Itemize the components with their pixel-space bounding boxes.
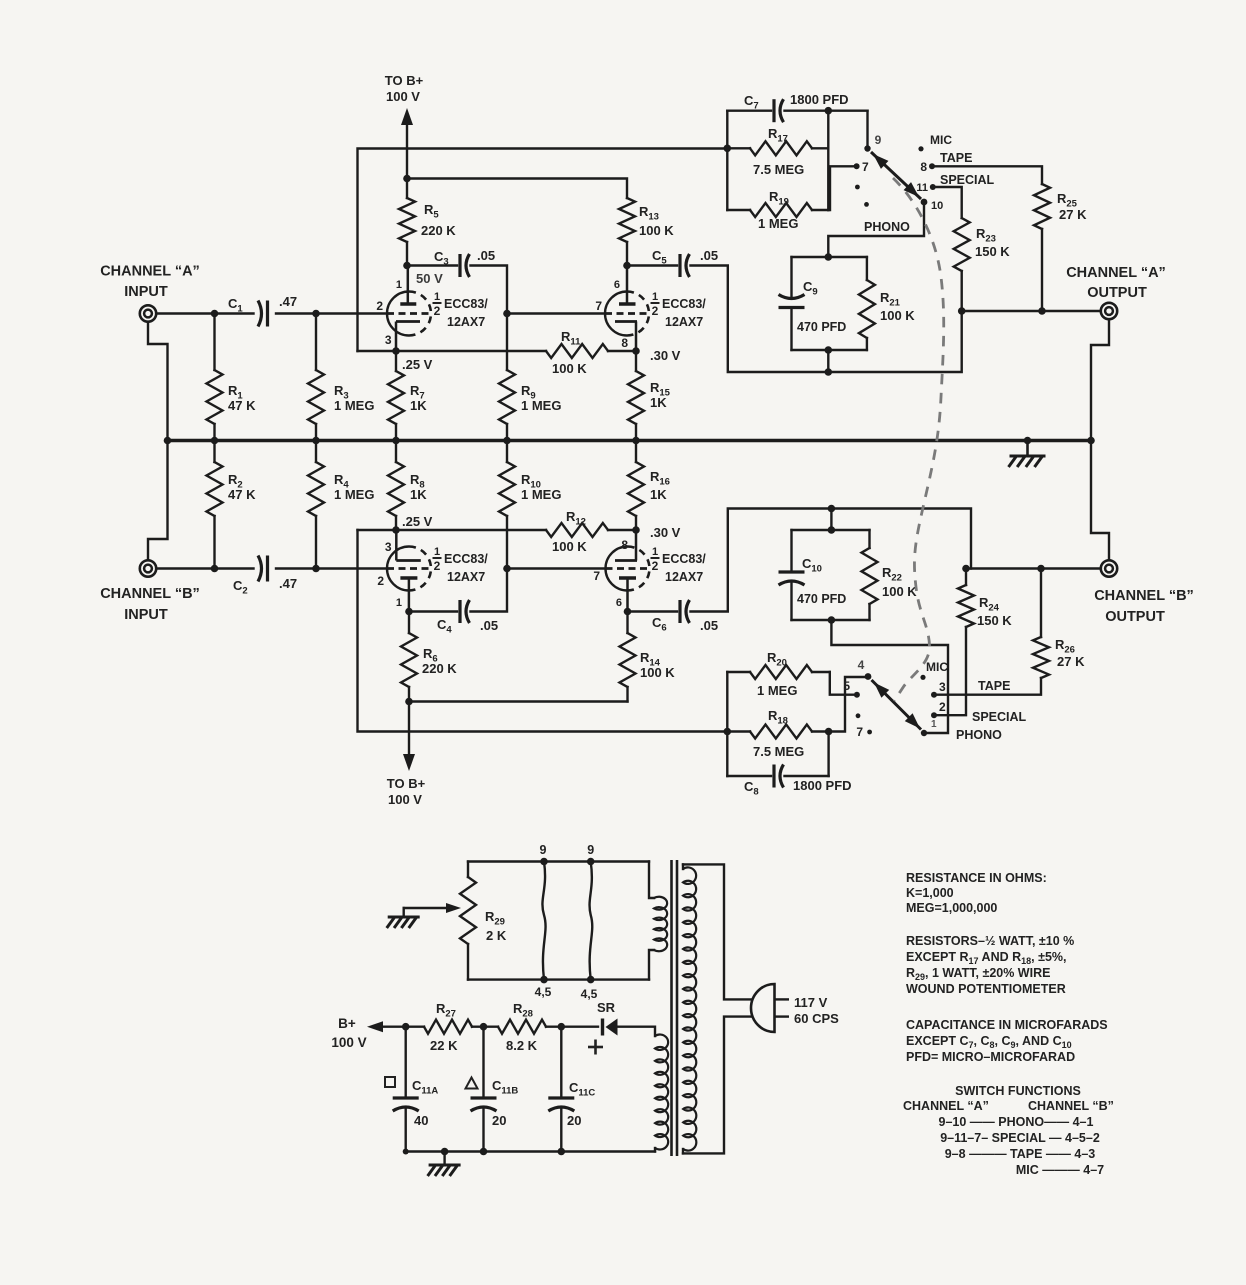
svg-text:9–11–7– SPECIAL — 4–5–2: 9–11–7– SPECIAL — 4–5–2 (940, 1131, 1100, 1145)
svg-text:40: 40 (414, 1113, 428, 1128)
label .05 (C4 value) (480, 618, 498, 633)
svg-text:C7: C7 (744, 93, 759, 112)
wire output line A (962, 310, 1101, 312)
label R19 (769, 189, 789, 208)
label 117V 60CPS (794, 995, 839, 1026)
wire cathode line B (358, 529, 637, 531)
label R22 100K (882, 565, 917, 599)
label SPECIAL (B) (972, 710, 1027, 724)
transformer primary winding (683, 864, 696, 1153)
label R13 100K (639, 204, 674, 238)
label C3 (434, 249, 449, 268)
label .30V (V2A cathode) (650, 348, 681, 363)
svg-text:100 K: 100 K (552, 539, 587, 554)
label TAPE (B) (978, 679, 1010, 693)
label R8 1K (410, 472, 427, 502)
label 40 (C11A) (414, 1113, 428, 1128)
pin 6 label (V2B plate) (616, 597, 622, 609)
svg-text:PHONO: PHONO (956, 728, 1002, 742)
label R20 (767, 650, 787, 669)
switch S1B contact 5 (843, 679, 860, 698)
svg-text:SR: SR (597, 1000, 616, 1015)
node ground stem (441, 1148, 449, 1156)
resistor R21 (859, 257, 875, 350)
svg-text:.05: .05 (700, 248, 718, 263)
svg-text:6: 6 (616, 597, 622, 609)
label CHANNEL A OUTPUT (1066, 265, 1166, 301)
switch S1B unused contact (856, 713, 861, 718)
resistor R27 (424, 1020, 498, 1034)
svg-text:7: 7 (862, 160, 869, 174)
wire input A to grid line (156, 312, 253, 314)
resistor R10 (499, 441, 515, 569)
svg-text:100 K: 100 K (640, 665, 675, 680)
svg-text:1: 1 (434, 291, 440, 303)
svg-text:9: 9 (540, 843, 547, 857)
note: switch functions (903, 1084, 1114, 1177)
wire C8 right to R18 node (827, 732, 829, 777)
wire C6 to output net B (691, 509, 972, 612)
svg-text:CAPACITANCE IN MICROFARADS: CAPACITANCE IN MICROFARADS (906, 1018, 1108, 1032)
label 7.5 MEG (R17) (753, 162, 804, 177)
resistor R8 (388, 441, 404, 531)
label R10 1MEG (521, 472, 561, 502)
node V2B plate / R14 / C6 (624, 608, 632, 616)
svg-text:C9: C9 (803, 279, 818, 298)
wire contact 2 to R24 (934, 627, 966, 715)
svg-text:220 K: 220 K (421, 223, 456, 238)
node V2A cathode / R15 (632, 347, 640, 355)
label 7.5 MEG (R18) (753, 744, 804, 759)
svg-text:12AX7: 12AX7 (447, 570, 485, 584)
output jack J4 CHANNEL B OUTPUT (1101, 560, 1117, 576)
resistor R7 (388, 351, 404, 441)
node V1A cathode / R7 (392, 347, 400, 355)
triode V1A (1/2 ECC83/12AX7) (387, 266, 431, 352)
node C7/R17 right junction (825, 107, 833, 115)
svg-text:C11C: C11C (569, 1080, 595, 1099)
svg-text:C5: C5 (652, 248, 667, 267)
svg-text:1K: 1K (650, 395, 667, 410)
switch S1A contact 10 (921, 199, 944, 212)
svg-text:R16: R16 (650, 469, 670, 488)
node C11C / R28 (558, 1023, 566, 1031)
wire primary top to plug (683, 864, 752, 999)
wire contact 11 to R23 (933, 187, 962, 218)
svg-text:R11: R11 (561, 329, 581, 348)
switch S1B wiper arm (4-1) (872, 680, 922, 730)
svg-text:100 K: 100 K (880, 308, 915, 323)
triode V2A (1/2 ECC83/12AX7) (605, 266, 649, 352)
note: resistance units (906, 871, 1047, 915)
rectifier SR (selenium) (603, 1019, 618, 1036)
wire contact 10 to C9/R21 box (828, 202, 924, 257)
label SR (597, 1000, 616, 1015)
label .25V (V1A cathode) (402, 357, 433, 372)
capacitor C5 (680, 254, 690, 277)
label R24 150K (977, 595, 1012, 628)
junction on ground bus x=214.5 (211, 437, 219, 445)
svg-text:27 K: 27 K (1059, 207, 1087, 222)
wire plate V2B to C6 (628, 610, 678, 612)
svg-text:TAPE: TAPE (940, 151, 972, 165)
svg-text:3: 3 (939, 680, 946, 694)
label R2 47K (228, 472, 256, 502)
label 1MEG (R20) (757, 683, 797, 698)
svg-text:2: 2 (652, 559, 659, 573)
ground bus (168, 439, 1092, 442)
junction on ground bus x=167.5 (164, 437, 172, 445)
svg-text:SWITCH FUNCTIONS: SWITCH FUNCTIONS (955, 1084, 1081, 1098)
svg-text:9–8 ——— TAPE —— 4–3: 9–8 ——— TAPE —— 4–3 (945, 1147, 1096, 1161)
junction on ground bus x=1091 (1087, 437, 1095, 445)
label CHANNEL B OUTPUT (1094, 588, 1194, 625)
resistor R13 (619, 198, 635, 266)
label C11C (569, 1080, 595, 1099)
node C11C ground (558, 1148, 566, 1156)
label R26 27K (1055, 637, 1085, 669)
label R15 1K (650, 380, 671, 410)
resistor R6 (401, 612, 417, 702)
svg-text:ECC83/: ECC83/ (662, 297, 706, 311)
svg-text:1 MEG: 1 MEG (334, 487, 374, 502)
wire R20 to contact 5 (830, 672, 853, 695)
wire contact 1 to C10/R22 box (831, 620, 948, 733)
label R12 100K (552, 509, 587, 554)
switch S1A contact 8 (920, 160, 935, 174)
resistor R18 (727, 725, 828, 739)
node input A / R1 (211, 310, 219, 318)
B+ supply arrow bottom (to B+ 100V) (403, 702, 415, 772)
label R29 2K (485, 909, 507, 943)
svg-text:MIC: MIC (926, 660, 948, 674)
wire C9/R21 box top (792, 256, 867, 258)
switch S1B contact 1 (PHONO) (921, 719, 937, 736)
svg-text:.25 V: .25 V (402, 357, 433, 372)
svg-text:1 MEG: 1 MEG (521, 398, 561, 413)
node heater bottom 2 (587, 976, 595, 984)
svg-text:9–10 —— PHONO—— 4–1: 9–10 —— PHONO—— 4–1 (939, 1115, 1094, 1129)
B+ output arrow (367, 1021, 424, 1032)
svg-text:7.5 MEG: 7.5 MEG (753, 162, 804, 177)
wire output B jack to ground bus (1091, 441, 1109, 561)
label C7 (744, 93, 759, 112)
wire C3 to V2A grid (471, 266, 508, 314)
label + (rectifier output) (588, 1040, 603, 1055)
wire input B jack to ground bus (148, 441, 168, 561)
svg-text:C11A: C11A (412, 1078, 438, 1097)
input jack J2 CHANNEL B INPUT (140, 560, 156, 576)
svg-text:12AX7: 12AX7 (665, 315, 703, 329)
resistor R12 (546, 523, 608, 537)
svg-text:2: 2 (376, 299, 383, 313)
svg-text:8: 8 (621, 538, 628, 552)
svg-text:470 PFD: 470 PFD (797, 592, 846, 606)
node on stage-2 output line B (828, 505, 836, 513)
resistor R11 (546, 344, 608, 358)
switch S1A unused contacts (855, 185, 869, 207)
svg-text:TO B+: TO B+ (385, 73, 424, 88)
input jack J1 CHANNEL A INPUT (140, 305, 156, 321)
label C2 (233, 578, 248, 597)
pin 2 label (V1B grid) (377, 574, 384, 588)
label C4 (437, 617, 452, 636)
svg-text:8: 8 (621, 336, 628, 350)
svg-text:C4: C4 (437, 617, 452, 636)
resistor R5 (399, 179, 415, 266)
svg-text:INPUT: INPUT (124, 284, 168, 300)
label R6 220K (422, 646, 457, 676)
label R9 1MEG (521, 383, 561, 413)
svg-text:1K: 1K (410, 487, 427, 502)
label 9 (heater tap) (540, 843, 547, 857)
AC line plug (751, 984, 789, 1032)
node input B / R2 (211, 565, 219, 573)
label SPECIAL (A) (940, 173, 995, 187)
node V2A grid / R9 (503, 310, 511, 318)
svg-text:MEG=1,000,000: MEG=1,000,000 (906, 901, 997, 915)
svg-text:220 K: 220 K (422, 661, 457, 676)
switch S1B contact 7 (856, 725, 872, 739)
svg-text:ECC83/: ECC83/ (662, 552, 706, 566)
capacitor C3 (460, 254, 470, 277)
junction on ground bus x=1027.5 (1024, 437, 1032, 445)
svg-text:8.2 K: 8.2 K (506, 1038, 538, 1053)
svg-text:4,5: 4,5 (581, 987, 598, 1001)
node B+ / R5 / R13 branch (403, 175, 411, 183)
svg-text:R27: R27 (436, 1001, 456, 1020)
svg-text:150 K: 150 K (977, 613, 1012, 628)
resistor R14 (620, 612, 636, 702)
svg-text:ECC83/: ECC83/ (444, 297, 488, 311)
switch S1A contact 11 (916, 182, 935, 194)
svg-text:1800 PFD: 1800 PFD (793, 778, 852, 793)
svg-text:2: 2 (434, 304, 441, 318)
wire primary bottom to plug (683, 1017, 752, 1154)
svg-text:20: 20 (492, 1113, 506, 1128)
label CHANNEL B INPUT (100, 586, 200, 623)
note: resistor ratings (906, 934, 1074, 996)
label R18 (768, 708, 788, 727)
resistor R22 (862, 530, 878, 620)
svg-text:R24: R24 (979, 595, 1000, 614)
svg-text:10: 10 (931, 200, 943, 212)
junction on ground bus x=396 (392, 437, 400, 445)
svg-text:RESISTANCE IN OHMS:: RESISTANCE IN OHMS: (906, 871, 1047, 885)
label .05 (C3 value) (477, 248, 495, 263)
wire heater lead 1 (542, 862, 545, 980)
label R17 (768, 126, 788, 145)
wire contact 3 to R26 (934, 678, 1041, 695)
wire input A jack to ground bus (148, 322, 168, 441)
svg-text:150 K: 150 K (975, 244, 1010, 259)
svg-text:1K: 1K (410, 398, 427, 413)
svg-text:PHONO: PHONO (864, 220, 910, 234)
label C8 (744, 779, 759, 798)
svg-text:1 MEG: 1 MEG (758, 216, 798, 231)
resistor R1 (207, 314, 223, 441)
label R23 150K (975, 226, 1010, 259)
resistor R3 (308, 314, 324, 441)
svg-text:1: 1 (652, 291, 658, 303)
svg-text:4: 4 (858, 658, 865, 672)
svg-text:1800 PFD: 1800 PFD (790, 92, 849, 107)
svg-text:C1: C1 (228, 296, 243, 315)
label .47 (C2 value) (279, 576, 297, 591)
svg-text:9: 9 (875, 133, 882, 147)
switch S1B contact MIC (920, 660, 948, 680)
svg-text:C8: C8 (744, 779, 759, 798)
node V2B cathode / R16 (632, 526, 640, 534)
svg-text:12AX7: 12AX7 (665, 570, 703, 584)
svg-text:1 MEG: 1 MEG (334, 398, 374, 413)
capacitor C9 (779, 257, 805, 350)
svg-text:100 K: 100 K (639, 223, 674, 238)
wire R28 to SR (561, 1025, 598, 1027)
node C9/R21 top (825, 253, 833, 261)
svg-text:47 K: 47 K (228, 398, 256, 413)
svg-text:R19: R19 (769, 189, 789, 208)
node C11B / R27 / R28 (480, 1023, 488, 1031)
svg-text:TO B+: TO B+ (387, 776, 426, 791)
node C9/R21 bottom (825, 346, 833, 354)
svg-text:27 K: 27 K (1057, 654, 1085, 669)
ganged switch linkage (dashed) (893, 178, 944, 701)
transformer T1 core (672, 860, 678, 1156)
pin 7 label (V2A grid) (595, 299, 602, 313)
node C10/R22 bottom (828, 616, 836, 624)
node V2A plate / R13 / C5 (623, 262, 631, 270)
resistor R23 (954, 218, 970, 311)
wire output line B (966, 567, 1100, 569)
label PHONO (B) (956, 728, 1002, 742)
label R14 100K (640, 650, 675, 680)
junction on ground bus x=507 (503, 437, 511, 445)
wire heater lead 2 (590, 862, 593, 980)
wire network A left bus (726, 111, 728, 210)
label R28 8.2K (506, 1001, 538, 1053)
capacitor C10 (779, 530, 805, 620)
svg-text:1: 1 (434, 546, 440, 558)
svg-text:20: 20 (567, 1113, 581, 1128)
svg-text:.05: .05 (480, 618, 498, 633)
label R7 1K (410, 383, 427, 413)
node R24 / output B (962, 565, 970, 573)
label R3 1MEG (334, 383, 374, 413)
resistor R20 (727, 665, 830, 679)
svg-text:CHANNEL “A”: CHANNEL “A” (1066, 265, 1166, 281)
svg-text:1: 1 (652, 546, 658, 558)
svg-text:INPUT: INPUT (124, 607, 168, 623)
svg-text:1K: 1K (650, 487, 667, 502)
svg-text:7: 7 (595, 299, 602, 313)
svg-text:4,5: 4,5 (535, 985, 552, 999)
wire C2 to tube V1B grid (276, 567, 387, 569)
svg-text:100 K: 100 K (882, 584, 917, 599)
capacitor C6 (680, 600, 690, 623)
svg-text:2: 2 (434, 559, 441, 573)
svg-text:PFD= MICRO–MICROFARAD: PFD= MICRO–MICROFARAD (906, 1050, 1075, 1064)
label C9 (803, 279, 818, 298)
wire C1 to tube V1A grid (276, 312, 387, 314)
switch S1B contact 3 (931, 680, 946, 698)
wire plate V1A to C3 (407, 264, 457, 266)
svg-text:R23: R23 (976, 226, 996, 245)
pin 1 label (V1A plate) (396, 279, 402, 291)
capacitor C1 (258, 301, 268, 327)
node R6 / B+ line B (405, 698, 413, 706)
wire contact 8 to R25 (932, 166, 1042, 184)
svg-text:R21: R21 (880, 290, 901, 309)
note: capacitance units (906, 1018, 1108, 1064)
svg-text:3: 3 (385, 333, 392, 347)
wire network A right bus (827, 111, 829, 210)
triode V2B (1/2 ECC83/12AX7) (606, 530, 650, 612)
ground symbol PSU (428, 1152, 461, 1177)
svg-text:1: 1 (396, 597, 402, 609)
pin 1 label (V1B plate) (396, 597, 402, 609)
svg-text:6: 6 (614, 279, 620, 291)
transformer HV winding (655, 1035, 668, 1152)
svg-text:CHANNEL “A”: CHANNEL “A” (100, 264, 200, 280)
junction on ground bus x=316 (312, 437, 320, 445)
junction on ground bus x=636 (632, 437, 640, 445)
label 9 (heater tap 2) (587, 843, 594, 857)
svg-text:9: 9 (587, 843, 594, 857)
svg-text:R13: R13 (639, 204, 659, 223)
label 1/2 ECC83/12AX7 (V1A) (433, 291, 489, 329)
node V1B cathode / R8 (392, 526, 400, 534)
label C5 (652, 248, 667, 267)
label R1 47K (228, 383, 256, 413)
wire feedback loop A (358, 149, 728, 352)
svg-text:R29: R29 (485, 909, 505, 928)
pin 7 label (V2B grid) (593, 569, 600, 583)
svg-text:EXCEPT C7, C8, C9, AND C10: EXCEPT C7, C8, C9, AND C10 (906, 1034, 1072, 1050)
node V2B grid / R10 (503, 565, 511, 573)
svg-text:EXCEPT R17 AND R18, ±5%,: EXCEPT R17 AND R18, ±5%, (906, 950, 1067, 966)
label 4,5 (heater tap) (535, 985, 552, 999)
label C11B (466, 1078, 519, 1097)
label .05 (C5 value) (700, 248, 718, 263)
svg-text:K=1,000: K=1,000 (906, 886, 954, 900)
svg-text:R29, 1 WATT, ±20% WIRE: R29, 1 WATT, ±20% WIRE (906, 966, 1050, 982)
label R11 100K (552, 329, 587, 376)
label 1/2 ECC83/12AX7 (V2A) (651, 291, 707, 329)
svg-text:50 V: 50 V (416, 271, 443, 286)
capacitor C11C (548, 1027, 574, 1152)
label 4,5 (heater tap 2) (581, 987, 598, 1001)
resistor R28 (498, 1020, 561, 1034)
wire to contact 9 (866, 111, 868, 145)
label C1 (228, 296, 243, 315)
node heater bottom 1 (540, 976, 548, 984)
wire feedback loop B (358, 530, 728, 732)
capacitor C11A (393, 1027, 419, 1152)
pin 8 label (V2B cathode) (621, 538, 628, 552)
svg-text:100 V: 100 V (388, 792, 422, 807)
label 20 (C11C) (567, 1113, 581, 1128)
label C11A (385, 1077, 438, 1097)
svg-text:470 PFD: 470 PFD (797, 320, 846, 334)
svg-text:B+: B+ (338, 1016, 356, 1031)
node C11A / B+ rail (402, 1023, 410, 1031)
pin 3 label (V1A cathode) (385, 333, 392, 347)
ground symbol on bus (1009, 441, 1046, 468)
wire B+ branch to R13 (407, 179, 627, 199)
svg-text:1 MEG: 1 MEG (521, 487, 561, 502)
svg-text:22 K: 22 K (430, 1038, 458, 1053)
